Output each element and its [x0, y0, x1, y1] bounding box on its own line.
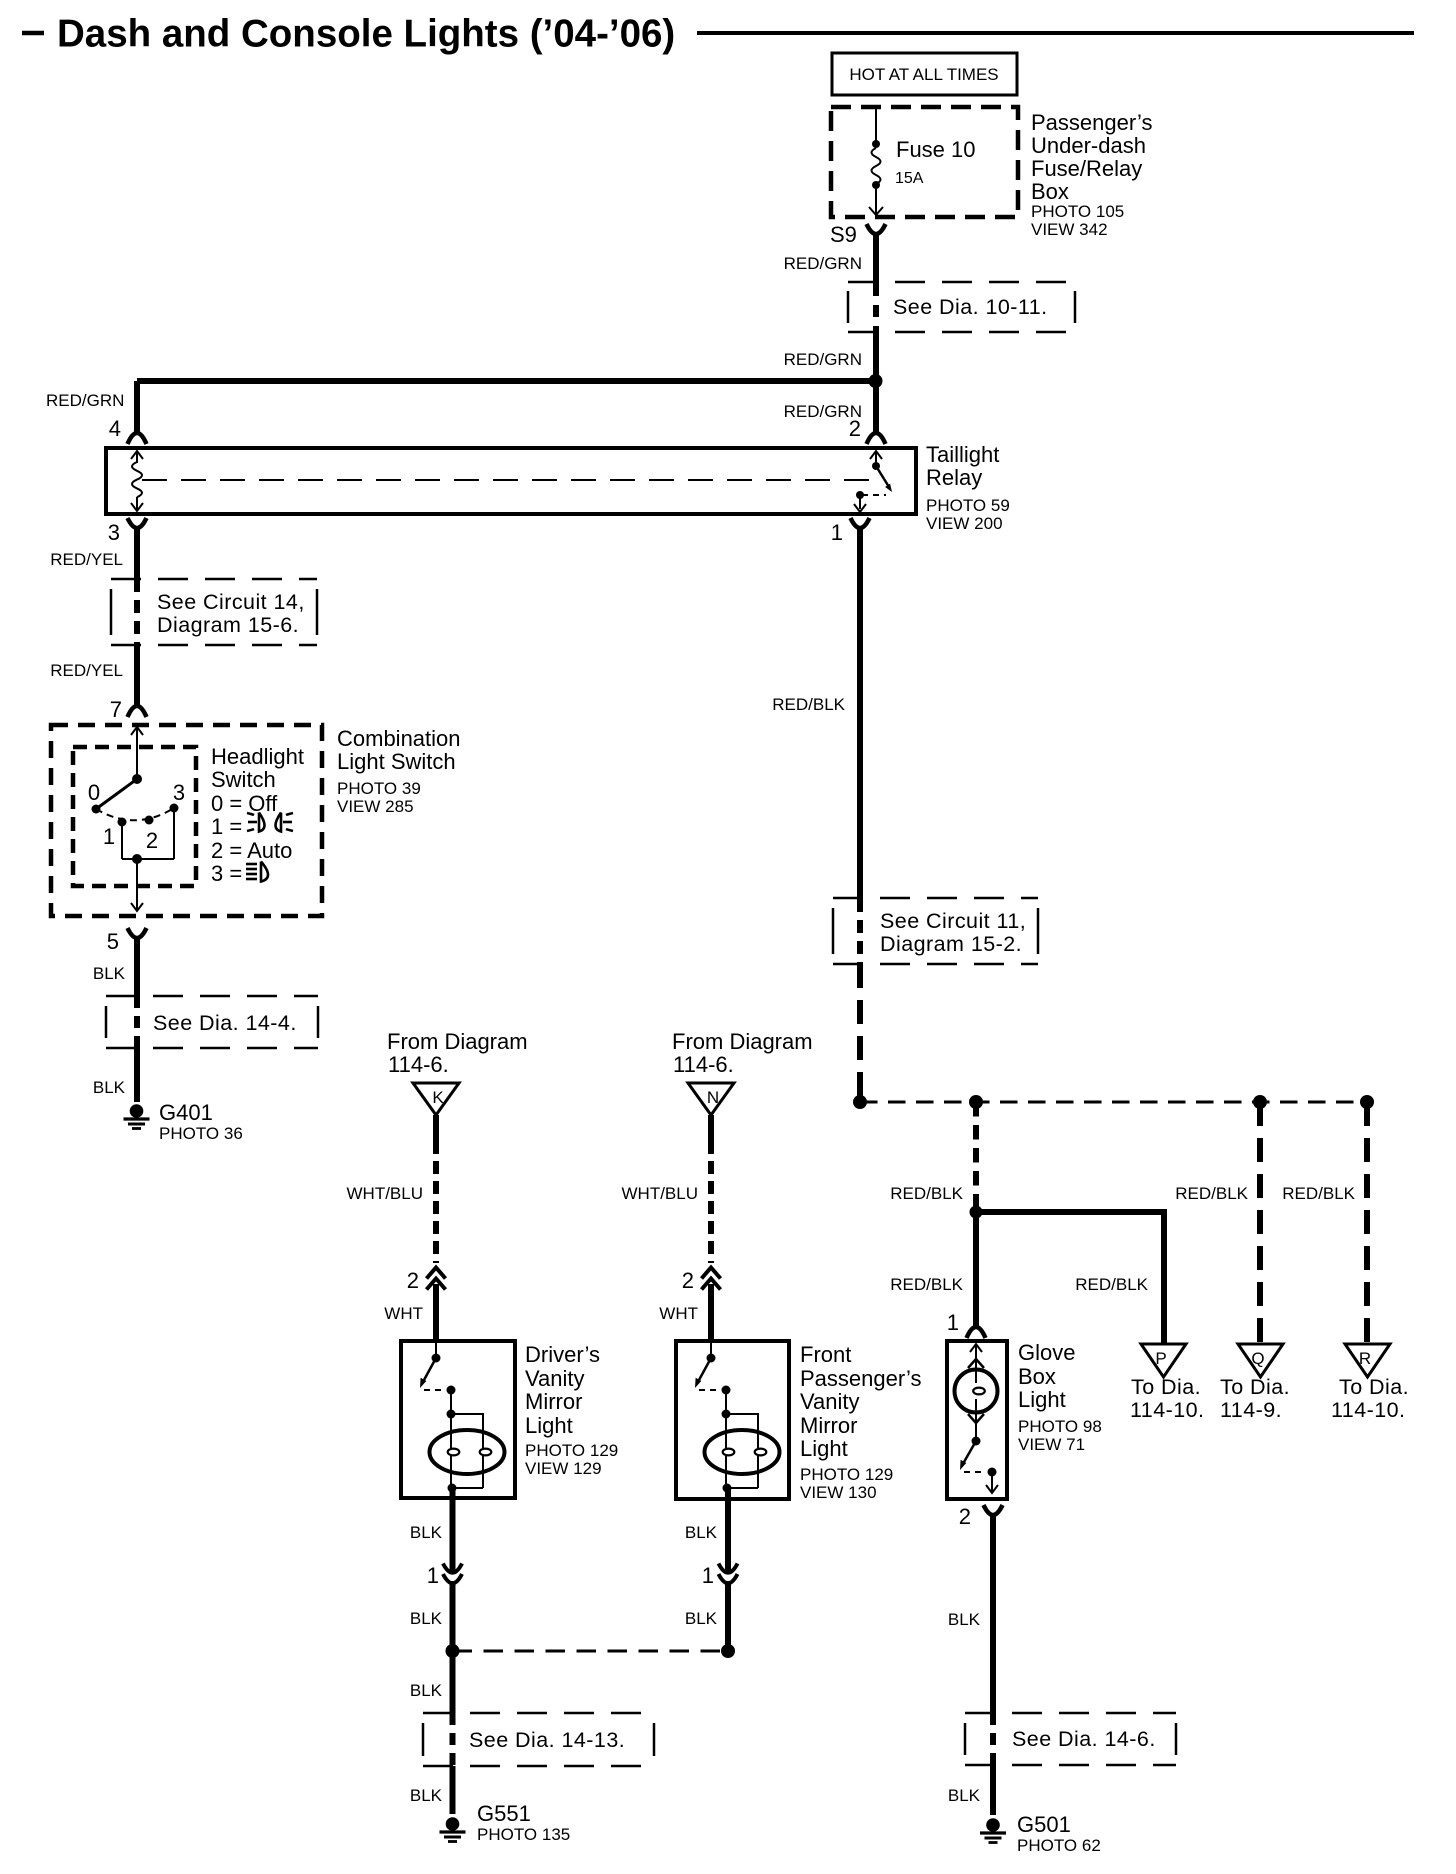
pin 7: [110, 697, 147, 722]
svg-text:See Circuit 14,: See Circuit 14,: [157, 590, 305, 614]
svg-text:RED/BLK: RED/BLK: [890, 1184, 963, 1203]
svg-text:1 =: 1 =: [211, 814, 242, 839]
wire RED/GRN S9 to see-note: [784, 232, 876, 284]
svg-text:RED/GRN: RED/GRN: [784, 350, 862, 369]
connector N from Diagram 114-6: [672, 1029, 813, 1115]
caption Headlight Switch legend: [211, 744, 304, 886]
pin 5: [107, 928, 147, 954]
svg-text:PHOTO 62: PHOTO 62: [1017, 1836, 1101, 1855]
svg-text:G551: G551: [477, 1801, 531, 1826]
wire RED/BLK to P: [976, 1212, 1164, 1344]
svg-text:BLK: BLK: [948, 1610, 981, 1629]
svg-text:Passenger’s: Passenger’s: [800, 1366, 921, 1391]
svg-text:Q: Q: [1251, 1349, 1264, 1368]
svg-text:Diagram 15-2.: Diagram 15-2.: [880, 932, 1022, 956]
svg-text:WHT/BLU: WHT/BLU: [347, 1184, 424, 1203]
svg-text:WHT: WHT: [384, 1304, 423, 1323]
ground bus dashed wire: [853, 1095, 1374, 1109]
caption Driver's Vanity Mirror Light: [525, 1342, 618, 1478]
svg-text:HOT AT ALL TIMES: HOT AT ALL TIMES: [849, 65, 998, 84]
svg-text:BLK: BLK: [410, 1523, 443, 1542]
svg-text:Taillight: Taillight: [926, 442, 999, 467]
caption Combination Light Switch: [337, 726, 461, 816]
svg-text:Mirror: Mirror: [525, 1389, 582, 1414]
wire RED/GRN branch left: [46, 381, 875, 410]
svg-text:RED/BLK: RED/BLK: [772, 695, 845, 714]
svg-text:PHOTO 135: PHOTO 135: [477, 1825, 570, 1844]
svg-text:BLK: BLK: [410, 1681, 443, 1700]
svg-text:Passenger’s: Passenger’s: [1031, 110, 1152, 135]
wire BLK to G401: [93, 1048, 137, 1102]
svg-text:1: 1: [103, 824, 115, 849]
svg-text:G501: G501: [1017, 1812, 1071, 1837]
svg-text:BLK: BLK: [93, 1078, 126, 1097]
svg-text:114-6.: 114-6.: [388, 1052, 449, 1077]
pin 3: [50, 518, 146, 579]
svg-text:1: 1: [831, 520, 843, 545]
svg-text:RED/BLK: RED/BLK: [1175, 1184, 1248, 1203]
svg-text:RED/GRN: RED/GRN: [784, 254, 862, 273]
svg-text:See Dia. 10-11.: See Dia. 10-11.: [893, 295, 1048, 319]
lamp Glove Box Light: [947, 1341, 1007, 1499]
junction node glove/P: [970, 1206, 983, 1219]
svg-text:2: 2: [146, 828, 158, 853]
switch Combination Light Switch (dashed enclosure): [51, 725, 322, 916]
svg-text:114-10.: 114-10.: [1130, 1398, 1204, 1422]
svg-text:RED/BLK: RED/BLK: [1282, 1184, 1355, 1203]
wire WHT into driver's vanity light: [384, 1284, 436, 1343]
svg-text:Fuse 10: Fuse 10: [896, 137, 976, 162]
relay switch: [854, 451, 892, 512]
svg-text:4: 4: [109, 416, 121, 441]
ground G401: [124, 1100, 243, 1143]
svg-text:BLK: BLK: [948, 1786, 981, 1805]
svg-text:Dash and Console Lights (’04-’: Dash and Console Lights (’04-’06): [57, 13, 675, 56]
svg-text:Headlight: Headlight: [211, 744, 304, 769]
svg-text:See Dia. 14-4.: See Dia. 14-4.: [153, 1011, 297, 1035]
see-note See Circuit 14, Diagram 15-6.: [111, 579, 317, 645]
wire BLK to G501: [948, 1765, 993, 1815]
svg-text:15A: 15A: [895, 170, 924, 187]
driver's vanity internals: switch and bulb: [420, 1343, 505, 1493]
junction node driver ground bus: [446, 1644, 460, 1658]
svg-text:3: 3: [173, 780, 185, 805]
svg-text:7: 7: [110, 697, 122, 722]
svg-text:P: P: [1155, 1349, 1166, 1368]
wire WHT into passenger's vanity light: [659, 1284, 711, 1343]
svg-text:See Dia. 14-13.: See Dia. 14-13.: [469, 1728, 625, 1752]
svg-text:PHOTO 39: PHOTO 39: [337, 779, 421, 798]
svg-text:Fuse/Relay: Fuse/Relay: [1031, 156, 1142, 181]
svg-text:PHOTO 36: PHOTO 36: [159, 1124, 243, 1143]
relay coil: [131, 451, 143, 511]
inline connector 1 (driver branch): [427, 1563, 462, 1588]
wire RED/BLK to R: [1282, 1102, 1367, 1344]
power source label HOT AT ALL TIMES: [832, 53, 1017, 95]
pin 1: [831, 518, 870, 545]
connector R to Dia. 114-10: [1331, 1344, 1409, 1422]
svg-text:2: 2: [682, 1268, 694, 1293]
svg-text:VIEW 130: VIEW 130: [800, 1483, 877, 1502]
lamp Driver's Vanity Mirror Light: [401, 1341, 515, 1498]
caption Glove Box Light: [1018, 1340, 1102, 1454]
svg-text:Glove: Glove: [1018, 1340, 1075, 1365]
svg-text:Switch: Switch: [211, 767, 276, 792]
glove box internals: bulb and switch: [955, 1344, 999, 1493]
wire BLK to junction: [685, 1581, 728, 1651]
svg-text:R: R: [1359, 1349, 1371, 1368]
svg-text:VIEW 342: VIEW 342: [1031, 220, 1108, 239]
svg-text:2: 2: [407, 1268, 419, 1293]
wire RED/BLK dashed to bus: [857, 964, 863, 1099]
svg-text:BLK: BLK: [410, 1786, 443, 1805]
relay Taillight Relay: [106, 442, 1010, 533]
wire RED/BLK to glove box light: [890, 1212, 976, 1328]
title: [22, 13, 1414, 56]
svg-text:Box: Box: [1031, 179, 1069, 204]
fuse Fuse 10 15A: [869, 107, 976, 215]
svg-text:5: 5: [107, 929, 119, 954]
svg-text:Under-dash: Under-dash: [1031, 133, 1146, 158]
passenger's vanity internals: switch and bulb: [695, 1343, 780, 1493]
svg-text:3 =: 3 =: [211, 861, 242, 886]
wire WHT/BLU from N: [622, 1115, 712, 1263]
icon position 1 parking lamps: [247, 813, 293, 832]
svg-text:RED/BLK: RED/BLK: [1075, 1275, 1148, 1294]
svg-text:Combination: Combination: [337, 726, 461, 751]
relay actuation dashed line: [142, 479, 876, 481]
pin 4: [109, 381, 147, 444]
svg-text:BLK: BLK: [410, 1609, 443, 1628]
svg-text:To Dia.: To Dia.: [1220, 1375, 1290, 1399]
wire RED/BLK to Q: [1175, 1102, 1260, 1344]
see-note See Circuit 11, Diagram 15-2.: [833, 898, 1038, 964]
svg-text:1: 1: [427, 1563, 439, 1588]
svg-text:2 = Auto: 2 = Auto: [211, 838, 292, 863]
inline connector 2 (N branch): [682, 1268, 721, 1294]
wire RED/YEL to pin 7: [50, 645, 137, 707]
svg-text:BLK: BLK: [685, 1523, 718, 1542]
svg-text:Light: Light: [800, 1436, 848, 1461]
icon position 3 headlamp: [246, 862, 268, 882]
svg-text:0 = Off: 0 = Off: [211, 791, 278, 816]
svg-text:Mirror: Mirror: [800, 1413, 857, 1438]
svg-text:Light: Light: [1018, 1387, 1066, 1412]
svg-text:114-9.: 114-9.: [1220, 1398, 1282, 1422]
svg-text:BLK: BLK: [93, 964, 126, 983]
svg-text:RED/GRN: RED/GRN: [46, 391, 124, 410]
svg-text:From Diagram: From Diagram: [387, 1029, 528, 1054]
svg-text:114-6.: 114-6.: [673, 1052, 734, 1077]
svg-text:1: 1: [947, 1310, 959, 1335]
see-note See Dia. 14-4.: [106, 996, 318, 1048]
svg-text:To Dia.: To Dia.: [1131, 1375, 1201, 1399]
Passenger's Under-dash Fuse/Relay Box (dashed): [831, 107, 1018, 217]
svg-text:See Dia. 14-6.: See Dia. 14-6.: [1012, 1727, 1156, 1751]
svg-text:Light: Light: [525, 1413, 573, 1438]
svg-text:To Dia.: To Dia.: [1339, 1375, 1409, 1399]
connector P to Dia. 114-10: [1130, 1344, 1204, 1422]
wire BLK below passenger's vanity: [685, 1488, 728, 1573]
wire dashed bus to passenger branch: [721, 1644, 735, 1658]
svg-text:From Diagram: From Diagram: [672, 1029, 813, 1054]
svg-text:WHT/BLU: WHT/BLU: [622, 1184, 699, 1203]
wire BLK below driver's vanity: [410, 1488, 453, 1573]
switch Headlight Switch (inner dashed box): [73, 747, 196, 886]
svg-text:N: N: [707, 1088, 719, 1107]
svg-text:VIEW 129: VIEW 129: [525, 1459, 602, 1478]
svg-text:G401: G401: [159, 1100, 213, 1125]
svg-text:WHT: WHT: [659, 1304, 698, 1323]
node S9: [830, 222, 886, 247]
svg-text:1: 1: [702, 1563, 714, 1588]
wire RED/GRN to junction: [784, 332, 876, 381]
svg-text:2: 2: [849, 416, 861, 441]
svg-text:PHOTO 129: PHOTO 129: [525, 1441, 618, 1460]
svg-text:2: 2: [959, 1504, 971, 1529]
svg-text:PHOTO 59: PHOTO 59: [926, 496, 1010, 515]
pin 2 glove box: [959, 1504, 1003, 1529]
svg-text:VIEW 200: VIEW 200: [926, 514, 1003, 533]
see-note See Dia. 14-13.: [423, 1713, 654, 1766]
svg-text:PHOTO 98: PHOTO 98: [1018, 1417, 1102, 1436]
svg-text:Diagram 15-6.: Diagram 15-6.: [157, 613, 299, 637]
inline connector 2 (K branch): [407, 1268, 446, 1294]
svg-text:3: 3: [108, 520, 120, 545]
svg-text:K: K: [432, 1088, 444, 1107]
svg-text:Vanity: Vanity: [800, 1389, 860, 1414]
wire BLK to see-note: [410, 1651, 453, 1713]
svg-text:BLK: BLK: [685, 1609, 718, 1628]
headlight switch internals: [88, 727, 185, 911]
svg-text:PHOTO 105: PHOTO 105: [1031, 202, 1124, 221]
svg-text:VIEW 71: VIEW 71: [1018, 1435, 1085, 1454]
pin 2: [784, 381, 886, 444]
see-note See Dia. 14-6.: [965, 1713, 1176, 1765]
svg-text:Driver’s: Driver’s: [525, 1342, 600, 1367]
inline connector 1 (passenger branch): [702, 1563, 738, 1588]
svg-text:Light Switch: Light Switch: [337, 749, 456, 774]
wire RED/BLK bus to glove junction: [890, 1102, 976, 1212]
svg-text:0: 0: [88, 780, 100, 805]
svg-text:RED/BLK: RED/BLK: [890, 1275, 963, 1294]
wire BLK pin5: [93, 936, 137, 996]
svg-text:Vanity: Vanity: [525, 1366, 585, 1391]
svg-text:RED/YEL: RED/YEL: [50, 661, 123, 680]
wire BLK to G551: [410, 1766, 453, 1814]
svg-text:VIEW 285: VIEW 285: [337, 797, 414, 816]
wire WHT/BLU from K: [347, 1115, 437, 1263]
svg-text:114-10.: 114-10.: [1331, 1398, 1405, 1422]
wire BLK glove to see-note: [948, 1513, 993, 1713]
svg-text:RED/YEL: RED/YEL: [50, 550, 123, 569]
svg-text:S9: S9: [830, 222, 857, 247]
caption Front Passenger's Vanity Mirror Light: [800, 1342, 921, 1502]
svg-text:See Circuit 11,: See Circuit 11,: [880, 909, 1026, 933]
svg-text:Relay: Relay: [926, 465, 982, 490]
fuse box caption: [1031, 110, 1152, 239]
ground G551: [440, 1801, 571, 1844]
connector Q to Dia. 114-9: [1220, 1344, 1290, 1422]
svg-text:Box: Box: [1018, 1364, 1056, 1389]
svg-text:Front: Front: [800, 1342, 851, 1367]
pin 1 glove box: [947, 1310, 986, 1338]
see-note See Dia. 10-11.: [848, 282, 1075, 332]
connector K from Diagram 114-6: [387, 1029, 528, 1115]
wire RED/BLK pin1 down: [772, 526, 860, 899]
junction node: [869, 374, 883, 388]
lamp Front Passenger's Vanity Mirror Light: [676, 1341, 789, 1499]
svg-text:PHOTO 129: PHOTO 129: [800, 1465, 893, 1484]
wire BLK to junction: [410, 1581, 453, 1651]
ground G501: [980, 1812, 1101, 1855]
